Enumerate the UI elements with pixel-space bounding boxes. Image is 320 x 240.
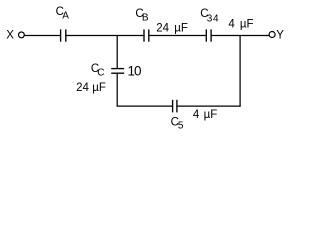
capacitor C_C <box>111 69 124 74</box>
label C_A <box>56 6 70 22</box>
svg-text:Y: Y <box>276 30 284 42</box>
svg-text:C: C <box>97 67 104 78</box>
value label 4 uF (C_5) <box>193 109 217 121</box>
capacitor C_34 <box>206 29 211 41</box>
label C_34 <box>200 8 219 25</box>
wire node A down to C_C <box>116 35 118 68</box>
capacitor C_A <box>61 29 66 41</box>
bottom wire right segment <box>177 105 240 107</box>
wire C_B to C_34 <box>149 35 206 37</box>
svg-text:X: X <box>6 30 14 42</box>
svg-text:B: B <box>142 13 149 24</box>
label C_C <box>91 63 105 78</box>
label C_B <box>135 8 149 24</box>
value label 10 (C_C) <box>128 63 142 78</box>
svg-text:µF: µF <box>174 22 188 34</box>
capacitor C_B <box>144 29 149 41</box>
value label 24 uF (C_C) <box>76 82 106 94</box>
svg-text:µF: µF <box>204 109 218 121</box>
terminal Y circle <box>269 32 275 38</box>
svg-text:A: A <box>62 11 69 22</box>
svg-text:µF: µF <box>240 18 254 30</box>
value label 24 uF (C_B) <box>156 22 188 34</box>
svg-text:24: 24 <box>76 82 89 94</box>
capacitor C_5 <box>173 100 177 113</box>
svg-text:34: 34 <box>207 14 219 25</box>
wire node A to C_B <box>117 35 143 37</box>
svg-text:0: 0 <box>134 63 142 78</box>
terminal X circle <box>19 32 25 38</box>
svg-text:4: 4 <box>193 109 200 121</box>
wire C_C down to bottom wire <box>116 74 118 106</box>
value label 4 uF (C_34) <box>228 18 253 30</box>
bottom wire left segment <box>117 105 173 107</box>
svg-text:5: 5 <box>178 121 184 132</box>
wire node B to Y <box>240 35 269 37</box>
wire C_A to node A <box>66 35 117 37</box>
svg-text:4: 4 <box>228 18 235 30</box>
wire C_34 to node B <box>212 35 241 37</box>
wire X to C_A <box>25 35 61 37</box>
svg-text:24: 24 <box>156 22 169 34</box>
wire node B down to bottom wire <box>239 36 241 107</box>
svg-text:µF: µF <box>92 82 106 94</box>
label C_5 <box>171 116 184 131</box>
